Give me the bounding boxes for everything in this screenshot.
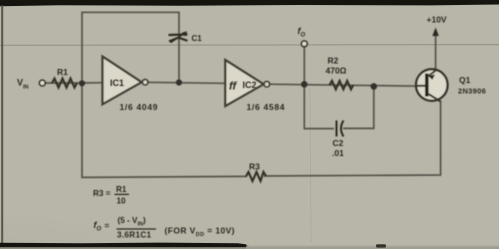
wire: main input run Vin to IC1 xyxy=(46,82,103,84)
svg-text:+10V: +10V xyxy=(427,15,447,25)
wire: IC1 output to IC2 input xyxy=(148,82,226,83)
svg-text:=: = xyxy=(105,222,110,231)
collector lead xyxy=(429,94,441,102)
svg-text:R1: R1 xyxy=(57,67,68,77)
junction node C1/IC1 output xyxy=(176,79,182,85)
bottom black bar xyxy=(0,243,249,248)
+10V supply arrow xyxy=(432,28,439,37)
svg-text:IC2: IC2 xyxy=(243,80,257,90)
svg-text:IC1: IC1 xyxy=(110,78,124,88)
svg-text:C2: C2 xyxy=(333,138,344,148)
wire: R3 feedback bottom xyxy=(82,83,247,177)
svg-text:2N3906: 2N3906 xyxy=(458,87,486,96)
wire: C2 branch xyxy=(304,84,334,129)
svg-text:C1: C1 xyxy=(192,34,203,43)
terminal Vin xyxy=(39,80,45,86)
junction node Q1 base/C2 xyxy=(371,83,378,90)
emitter lead (to +10V) with arrow into base xyxy=(429,70,437,76)
base lead xyxy=(416,85,425,87)
inverter IC2 xyxy=(225,60,263,106)
transistor Q1 xyxy=(416,69,448,101)
resistor R3 xyxy=(246,172,266,181)
op-amp/inverter IC1 xyxy=(103,57,142,105)
top black bar xyxy=(0,0,499,6)
wire: IC2 output to Q1 base xyxy=(269,84,425,86)
wire: +10V to emitter xyxy=(435,31,437,70)
svg-text:1/6 4584: 1/6 4584 xyxy=(247,102,286,112)
junction node after R1 xyxy=(79,80,85,86)
terminal fo xyxy=(301,41,307,47)
scan crease line xyxy=(0,44,499,47)
svg-text:Q1: Q1 xyxy=(459,75,471,85)
faint vertical crease xyxy=(310,88,311,242)
svg-text:R3 =: R3 = xyxy=(93,189,111,198)
svg-text:R3: R3 xyxy=(249,162,260,172)
svg-text:470Ω: 470Ω xyxy=(326,66,347,76)
svg-text:3.6R1C1: 3.6R1C1 xyxy=(117,231,152,240)
resistor R1 xyxy=(52,79,77,88)
wire: feedback top loop xyxy=(82,12,179,83)
svg-text:1/6 4049: 1/6 4049 xyxy=(120,102,159,112)
svg-text:R2: R2 xyxy=(328,56,339,66)
wire: fo stub xyxy=(303,47,305,84)
svg-text:R1: R1 xyxy=(116,185,127,194)
formula R3 = R1/10 xyxy=(93,185,127,206)
junction node fo/C2 xyxy=(301,81,308,88)
svg-text:10: 10 xyxy=(117,197,127,206)
bottom small dark tick xyxy=(376,244,386,247)
capacitor C2 xyxy=(337,121,344,137)
formula fo xyxy=(94,216,235,239)
resistor R2 xyxy=(330,81,354,90)
left page edge xyxy=(1,5,3,245)
svg-text:.01: .01 xyxy=(332,148,344,158)
capacitor C1 xyxy=(169,31,188,42)
